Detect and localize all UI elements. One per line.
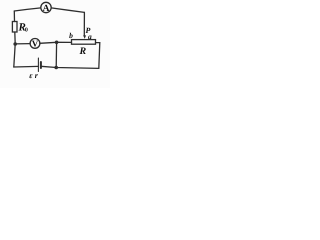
wire bottom-right segment [41, 66, 99, 68]
wire top-left segment [14, 8, 41, 11]
wire left vertical lower [14, 32, 15, 67]
node junction left [13, 42, 17, 46]
wire slider drop [83, 12, 85, 35]
svg-text:R: R [79, 46, 87, 57]
node junction bottom [54, 66, 58, 70]
wire middle vertical [55, 42, 57, 67]
battery short plate [40, 62, 42, 68]
wire left vertical upper [13, 11, 15, 22]
svg-text:A: A [43, 4, 50, 14]
wire bottom-left segment [14, 65, 39, 68]
resistor R0 body [12, 22, 17, 33]
svg-text:b: b [69, 31, 73, 40]
node junction middle [55, 41, 59, 45]
voltmeter V body [30, 39, 40, 49]
ammeter A body [41, 2, 51, 12]
wire top-right segment [51, 8, 84, 12]
wire right vertical [96, 43, 100, 69]
battery long plate [37, 58, 39, 72]
wire voltmeter left [15, 43, 30, 45]
svg-text:0: 0 [25, 27, 28, 33]
rheostat R body [72, 40, 96, 45]
svg-text:a: a [88, 32, 92, 41]
slider arrowhead P [83, 35, 86, 38]
wire voltmeter right [40, 42, 72, 43]
svg-text:V: V [32, 39, 39, 49]
